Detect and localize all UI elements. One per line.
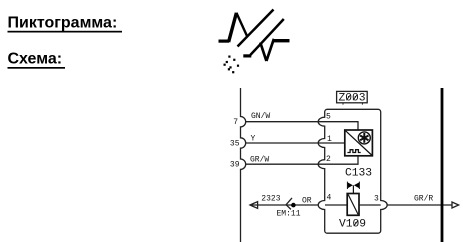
wire 2323-branch to pin4 [250, 204, 318, 206]
svg-text:Схема:: Схема: [8, 51, 63, 68]
fan wheel circle [358, 132, 370, 144]
heading Пиктограмма: [8, 14, 123, 32]
right direction arrow [452, 202, 459, 208]
Z003 designation box [337, 91, 368, 104]
icon spike rising stroke [229, 13, 237, 42]
icon rain streak 1 [238, 10, 274, 47]
svg-text:V109: V109 [339, 219, 366, 231]
svg-text:35: 35 [230, 140, 240, 149]
icon baseline bar left [219, 39, 230, 42]
svg-text:C133: C133 [345, 167, 372, 179]
wire pin7 to pin5 [246, 121, 325, 123]
svg-text:GR/R: GR/R [414, 195, 433, 204]
valve bowtie symbol [348, 182, 360, 188]
wire pin3 to right rail [387, 204, 452, 206]
sensor C133 body [345, 130, 373, 156]
svg-text:GN/W: GN/W [251, 112, 270, 121]
inner wire pin5 down to sensor top [325, 122, 358, 130]
icon mini baseline bar center [243, 54, 251, 57]
icon V left arm [260, 43, 266, 62]
branch chevron [286, 198, 292, 210]
heading Схема: [8, 51, 66, 69]
right power rail thick line [441, 88, 444, 242]
svg-text:3: 3 [374, 195, 379, 204]
wire pin39 to pin2 [246, 163, 325, 165]
icon rain streak 2 [250, 19, 283, 55]
svg-text:Пиктограмма:: Пиктограмма: [8, 14, 118, 31]
inner wire pin2 up to sensor bottom [325, 156, 358, 164]
svg-text:Y: Y [251, 134, 256, 143]
icon V right arm [266, 39, 274, 61]
square wave symbol [347, 150, 360, 153]
slash for zero of V109 [354, 220, 358, 226]
valve V109 body [347, 194, 359, 216]
svg-text:EM:11: EM:11 [277, 210, 301, 219]
icon rain dots [224, 56, 240, 74]
svg-text:2: 2 [326, 155, 331, 164]
slashes for zeros of Z003 [346, 94, 350, 100]
left direction arrow to track 2323 [250, 202, 258, 209]
fan blades [360, 133, 368, 143]
svg-text:2323: 2323 [261, 194, 280, 203]
svg-text:OR: OR [302, 197, 312, 206]
svg-text:GR/W: GR/W [250, 156, 269, 165]
svg-text:7: 7 [233, 118, 238, 127]
wire pin3 out of valve [359, 204, 381, 206]
valve stem [352, 185, 354, 193]
icon baseline bar right [274, 39, 290, 42]
wire pin4 into valve V109 [325, 204, 347, 206]
svg-text:5: 5 [326, 112, 331, 121]
inner wire pin1 to sensor left [325, 142, 345, 144]
stub legs under Z003 box [342, 103, 344, 105]
component outline box Z003 assembly [318, 109, 387, 233]
svg-text:4: 4 [327, 193, 332, 202]
pictogram rain-sensor icon [219, 10, 290, 62]
svg-text:39: 39 [230, 161, 240, 170]
junction dot [291, 203, 296, 208]
wire pin35 to pin1 [246, 142, 325, 144]
left connector track line with pin bumps [241, 88, 246, 242]
icon spike falling stroke [236, 13, 247, 36]
